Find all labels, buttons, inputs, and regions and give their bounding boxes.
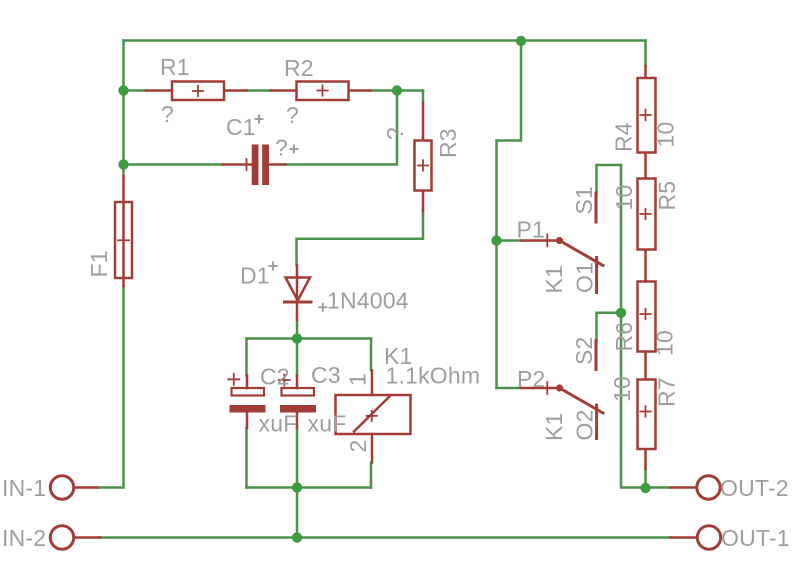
- resistor R3: [415, 103, 432, 211]
- svg-text:xuF: xuF: [259, 411, 298, 437]
- wire C2 bottom stub: [245, 428, 248, 488]
- wire left vertical upper: [122, 41, 125, 177]
- svg-text:?: ?: [161, 101, 174, 127]
- svg-text:S1: S1: [571, 186, 597, 215]
- svg-text:1.1kOhm: 1.1kOhm: [386, 363, 481, 389]
- wire K1 coil pin2 stub: [370, 463, 373, 488]
- relay contact K1 switch 2: [521, 341, 603, 439]
- node junction top bus: [516, 36, 526, 46]
- wire R7 bottom to OUT-2 line: [644, 469, 647, 488]
- node junction left C1 row: [118, 159, 128, 169]
- svg-text:1N4004: 1N4004: [327, 288, 409, 314]
- node junction cap rail top: [292, 333, 302, 343]
- wire P bus from top node: [497, 41, 522, 388]
- wire cap bottom rail: [247, 486, 372, 489]
- svg-text:xuF: xuF: [308, 411, 347, 437]
- wire R4 top feed: [644, 41, 647, 67]
- wire C1 to node: [285, 91, 397, 165]
- svg-text:?: ?: [275, 135, 288, 161]
- svg-text:10: 10: [609, 376, 635, 402]
- capacitor C3: [279, 375, 316, 429]
- resistor R2: [271, 82, 371, 101]
- svg-text:R4: R4: [611, 122, 637, 152]
- label C1 value anchor cross: [290, 145, 299, 154]
- wire cap top rail: [247, 337, 372, 340]
- node junction bottom bus: [292, 532, 302, 542]
- wire C2 top stub: [245, 339, 248, 376]
- svg-text:IN-2: IN-2: [2, 525, 46, 551]
- svg-text:?: ?: [286, 102, 299, 128]
- wire C3 top stub: [296, 339, 299, 376]
- svg-text:R2: R2: [284, 55, 314, 81]
- wire C1 feed: [124, 163, 224, 166]
- terminal OUT-2: [671, 476, 721, 499]
- label C1 name anchor cross: [255, 115, 264, 124]
- wire S2 branch: [597, 313, 622, 341]
- svg-text:O1: O1: [572, 262, 598, 293]
- svg-text:P1: P1: [517, 217, 546, 243]
- svg-text:?: ?: [382, 127, 408, 140]
- node junction cap rail bottom: [292, 482, 302, 492]
- svg-text:OUT-1: OUT-1: [721, 525, 790, 551]
- svg-text:R5: R5: [654, 181, 680, 211]
- relay contact K1 switch 1: [521, 193, 603, 293]
- wire S1 to S bus: [597, 165, 622, 193]
- node junction P1: [491, 235, 501, 245]
- resistor R7: [638, 380, 656, 470]
- wire R2 output: [370, 89, 423, 92]
- wire P2 branch: [497, 387, 522, 390]
- svg-text:C2: C2: [260, 364, 290, 390]
- svg-text:D1: D1: [240, 263, 270, 289]
- wire S bus vertical: [621, 165, 671, 488]
- svg-text:K1: K1: [541, 412, 567, 441]
- terminal OUT-1: [671, 526, 721, 549]
- svg-text:2: 2: [345, 440, 371, 453]
- capacitor C1: [223, 145, 285, 186]
- terminal IN-1: [50, 476, 97, 499]
- wire R3 bottom to D1: [297, 211, 424, 265]
- svg-text:IN-1: IN-1: [2, 475, 46, 501]
- node junction left R1 row: [118, 85, 128, 95]
- svg-text:S2: S2: [571, 336, 597, 365]
- node junction S bus: [616, 308, 626, 318]
- wire left vertical lower to IN-1: [98, 286, 124, 488]
- resistor R6: [638, 282, 656, 380]
- svg-text:OUT-2: OUT-2: [720, 475, 789, 501]
- svg-text:R3: R3: [435, 128, 461, 158]
- node junction OUT-2 line: [640, 483, 650, 493]
- wire top bus: [124, 39, 646, 42]
- label D1 name anchor cross: [269, 262, 278, 271]
- svg-text:K1: K1: [541, 265, 567, 294]
- resistor R5: [638, 179, 656, 282]
- resistor R1: [146, 82, 247, 101]
- svg-text:C3: C3: [311, 362, 341, 388]
- capacitor C2: [228, 374, 265, 428]
- resistor R4: [638, 66, 656, 179]
- wire R1-R2 link: [247, 89, 271, 92]
- relay coil K1: [336, 370, 411, 462]
- wire C3 bottom stub: [296, 428, 299, 488]
- node junction at R2 output: [392, 85, 402, 95]
- svg-text:10: 10: [611, 185, 637, 211]
- wire R1 feed: [124, 89, 147, 92]
- svg-text:R7: R7: [654, 377, 680, 407]
- fuse F1: [115, 176, 132, 286]
- svg-text:1: 1: [345, 373, 371, 386]
- svg-text:10: 10: [652, 330, 678, 356]
- label D1 value anchor cross: [318, 303, 327, 312]
- wire R3 top: [422, 91, 425, 104]
- wire center drop to bottom bus: [296, 488, 299, 538]
- svg-text:F1: F1: [86, 250, 112, 277]
- wire bottom bus IN-2 to OUT-1: [100, 536, 671, 539]
- svg-text:R1: R1: [160, 54, 190, 80]
- svg-text:O2: O2: [572, 409, 598, 440]
- svg-text:R6: R6: [611, 322, 637, 352]
- svg-text:10: 10: [653, 122, 679, 148]
- wire P1 branch: [497, 239, 522, 242]
- svg-text:C1: C1: [226, 114, 256, 140]
- diode D1: [285, 265, 312, 320]
- wire K1 coil pin1 stub: [370, 339, 373, 371]
- wire D1 cathode down: [296, 320, 299, 339]
- svg-text:P2: P2: [517, 366, 546, 392]
- terminal IN-2: [50, 526, 100, 549]
